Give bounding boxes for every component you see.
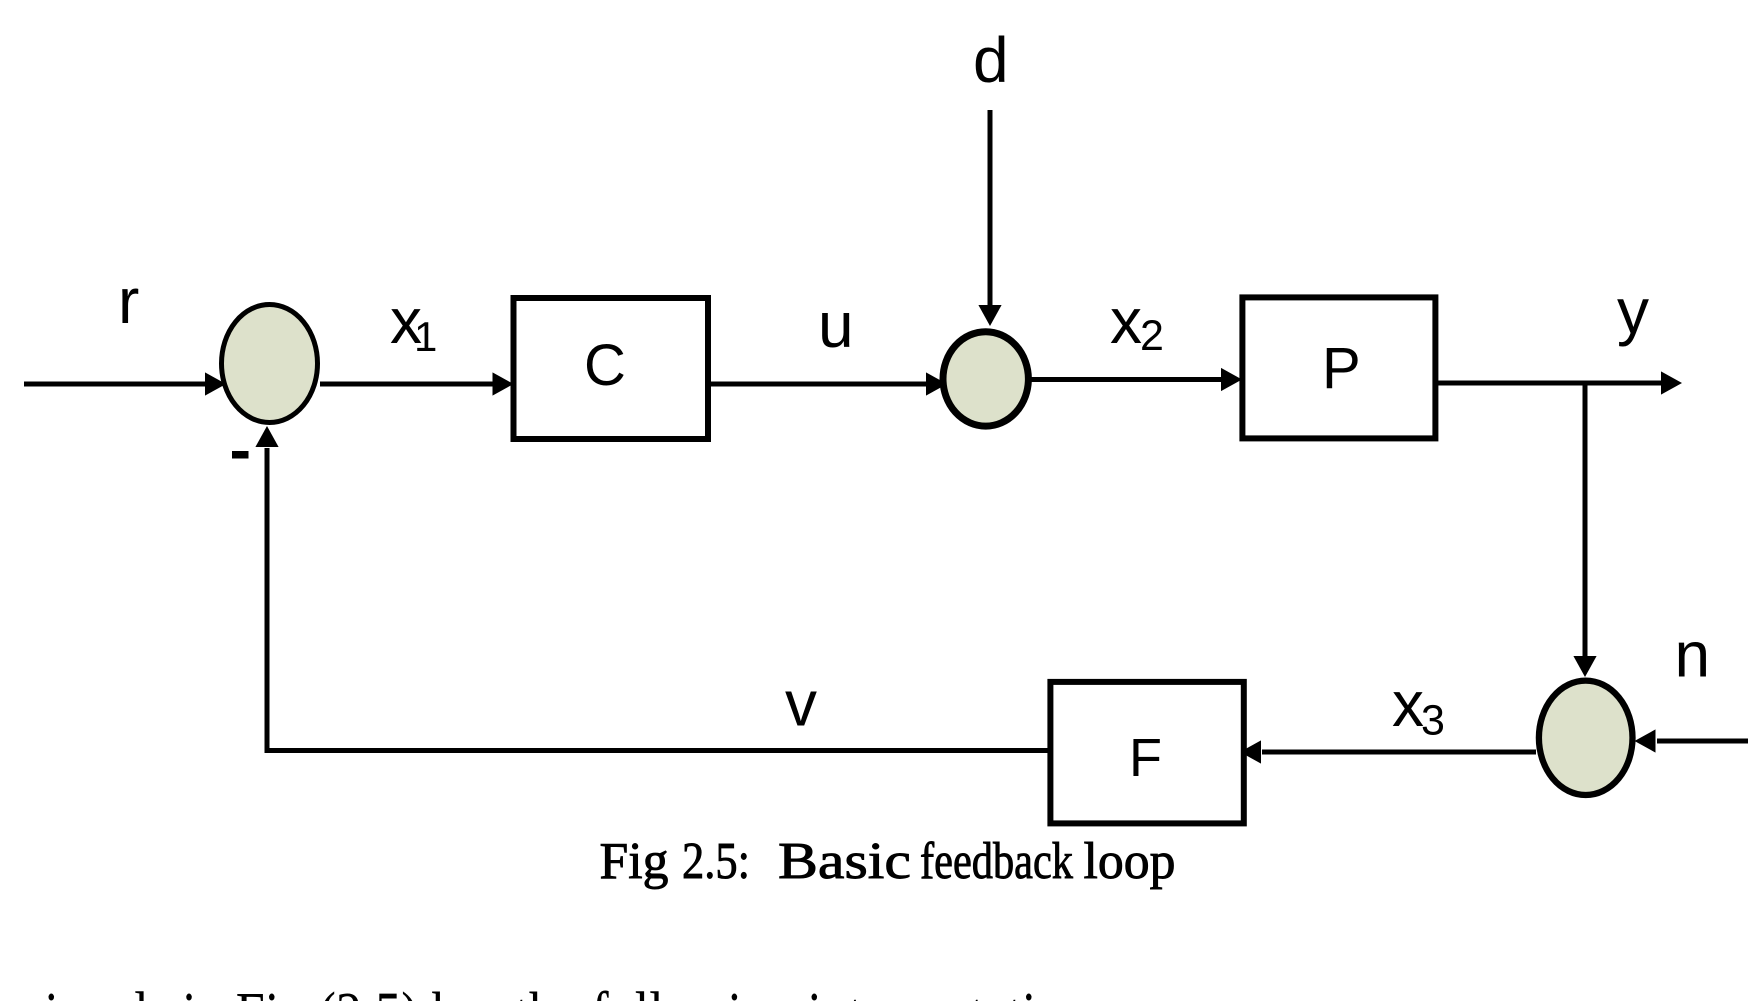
svg-text:C: C: [584, 333, 626, 398]
svg-text:signals in Fig (2.5) has the f: signals in Fig (2.5) has the following i…: [24, 979, 1109, 1001]
svg-text:P: P: [1322, 336, 1361, 401]
svg-text:u: u: [818, 289, 854, 361]
svg-text:r: r: [118, 265, 139, 337]
svg-text:loop: loop: [1084, 833, 1176, 890]
svg-text:Basic: Basic: [778, 833, 911, 890]
svg-text:feedback: feedback: [920, 833, 1073, 890]
svg-text:n: n: [1675, 619, 1711, 691]
svg-text:F: F: [1129, 728, 1162, 788]
svg-text:y: y: [1617, 275, 1649, 347]
svg-text:2.5:: 2.5:: [682, 833, 750, 890]
svg-text:Fig: Fig: [600, 833, 669, 890]
svg-text:v: v: [785, 668, 817, 740]
svg-text:d: d: [973, 24, 1009, 96]
